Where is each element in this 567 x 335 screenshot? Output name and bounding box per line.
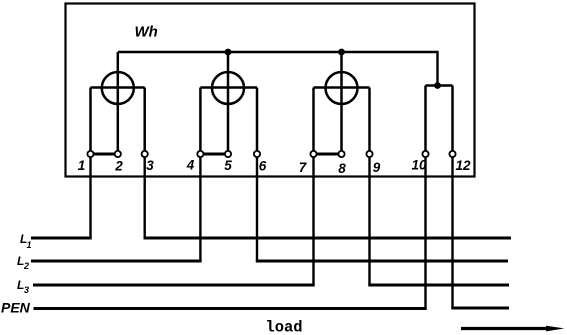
svg-text:PEN: PEN [1, 300, 31, 316]
svg-text:3: 3 [146, 158, 154, 173]
svg-text:3: 3 [24, 285, 29, 295]
svg-text:Wh: Wh [135, 24, 158, 41]
svg-text:5: 5 [224, 158, 232, 173]
svg-text:12: 12 [455, 158, 471, 173]
svg-text:4: 4 [186, 158, 195, 173]
svg-text:2: 2 [23, 261, 29, 271]
svg-text:7: 7 [299, 160, 308, 175]
svg-text:9: 9 [373, 160, 381, 175]
svg-text:load: load [265, 319, 302, 335]
svg-text:1: 1 [27, 240, 32, 250]
svg-text:8: 8 [338, 161, 346, 176]
svg-text:1: 1 [78, 158, 86, 173]
svg-text:6: 6 [259, 159, 267, 174]
svg-text:2: 2 [114, 159, 123, 174]
